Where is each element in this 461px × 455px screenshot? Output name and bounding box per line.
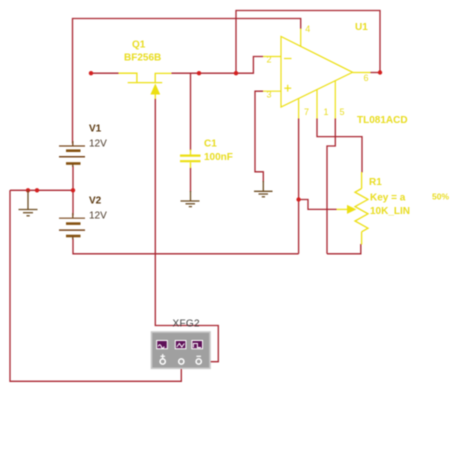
junction dot ground rail mid <box>35 188 39 192</box>
wire bottom rail V2 to pin7 <box>73 239 299 254</box>
op-amp U1 <box>263 22 408 126</box>
wire op-amp output to feedback corner <box>371 72 381 74</box>
svg-text:Key = a: Key = a <box>370 193 406 204</box>
wire C1 bottom to ground <box>190 168 192 193</box>
svg-text:100nF: 100nF <box>204 152 233 163</box>
svg-text:BF256B: BF256B <box>124 53 161 64</box>
potentiometer R1 <box>337 172 450 245</box>
wire ground node to V2 top <box>72 190 74 215</box>
svg-text:R1: R1 <box>369 177 382 188</box>
wire R1 bottom to pin5 net <box>327 244 361 254</box>
function generator XFG2 <box>152 319 211 369</box>
junction dot minus input net <box>234 71 238 75</box>
wire top-left horizontal to op-amp pin4 <box>73 19 301 144</box>
junction dot drain net <box>197 71 201 75</box>
svg-text:U1: U1 <box>355 22 368 33</box>
wire Q1 source to op-amp minus node <box>171 72 236 74</box>
battery V2 <box>59 196 107 240</box>
wire ground rail horizontal <box>10 189 73 191</box>
ground left <box>19 190 38 216</box>
junction dot battery mid node <box>71 188 75 192</box>
wire V1 bottom to ground node <box>72 166 74 190</box>
svg-text:C1: C1 <box>204 139 217 150</box>
svg-text:7: 7 <box>304 107 309 117</box>
svg-text:Q1: Q1 <box>132 40 146 51</box>
svg-text:6: 6 <box>364 73 369 83</box>
ground below C1 <box>181 191 200 207</box>
svg-text:4: 4 <box>305 24 310 34</box>
svg-text:2: 2 <box>267 55 272 65</box>
svg-text:3: 3 <box>267 90 272 100</box>
svg-text:5: 5 <box>340 107 345 117</box>
svg-text:10K_LIN: 10K_LIN <box>370 206 410 217</box>
junction dot pin7 wiper tap <box>296 197 300 201</box>
svg-text:50%: 50% <box>432 192 449 202</box>
svg-text:12V: 12V <box>89 139 107 150</box>
svg-text:12V: 12V <box>89 211 107 222</box>
wire pin7 node to R1 wiper <box>299 200 337 210</box>
wire left vertical to XFG2 common <box>10 190 181 381</box>
wire Q1 gate down to XFG2 minus <box>155 99 218 362</box>
battery V1 <box>59 124 107 168</box>
junction dot Q1 gate wire end <box>89 71 93 75</box>
wire op-amp pin7 down <box>298 119 300 254</box>
svg-text:1: 1 <box>324 107 329 117</box>
junction dot output feedback <box>378 70 382 74</box>
wire op-amp plus input to ground <box>255 91 263 182</box>
transistor Q1 <box>119 40 172 100</box>
wire op-amp pin5 down <box>327 119 335 254</box>
capacitor C1 <box>180 139 233 169</box>
svg-text:V1: V1 <box>89 124 102 135</box>
wire C1 branch vertical <box>190 73 192 150</box>
svg-text:V2: V2 <box>89 196 102 207</box>
wire node to op-amp minus input <box>236 57 263 74</box>
junction dot ground rail left <box>26 188 30 192</box>
wire op-amp pin1 to R1 top <box>317 119 362 173</box>
ground below op-amp plus input <box>254 181 273 197</box>
svg-text:TL081ACD: TL081ACD <box>357 115 408 126</box>
wire top feedback horizontal <box>236 11 380 74</box>
wire Q1 gate-left segment <box>91 72 119 74</box>
svg-text:XFG2: XFG2 <box>173 319 200 330</box>
